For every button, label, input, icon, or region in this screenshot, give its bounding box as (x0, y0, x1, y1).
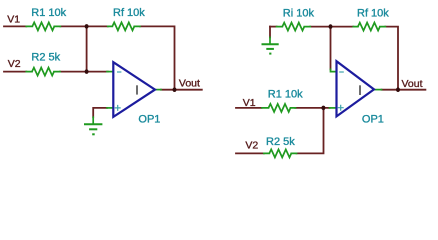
svg-text:V1: V1 (7, 13, 20, 25)
svg-text:R2 5k: R2 5k (31, 51, 60, 63)
svg-text:R2 5k: R2 5k (266, 136, 295, 148)
svg-text:V2: V2 (8, 58, 21, 70)
svg-text:V1: V1 (243, 97, 256, 109)
svg-text:Ri 10k: Ri 10k (283, 7, 315, 19)
svg-text:Rf 10k: Rf 10k (113, 7, 145, 19)
svg-text:R1 10k: R1 10k (31, 7, 66, 19)
svg-text:Vout: Vout (402, 78, 423, 90)
svg-text:R1 10k: R1 10k (268, 89, 303, 101)
svg-text:Rf 10k: Rf 10k (357, 7, 389, 19)
svg-text:OP1: OP1 (138, 114, 160, 126)
svg-text:OP1: OP1 (362, 114, 384, 126)
svg-text:V2: V2 (245, 140, 258, 152)
svg-text:Vout: Vout (179, 77, 200, 89)
